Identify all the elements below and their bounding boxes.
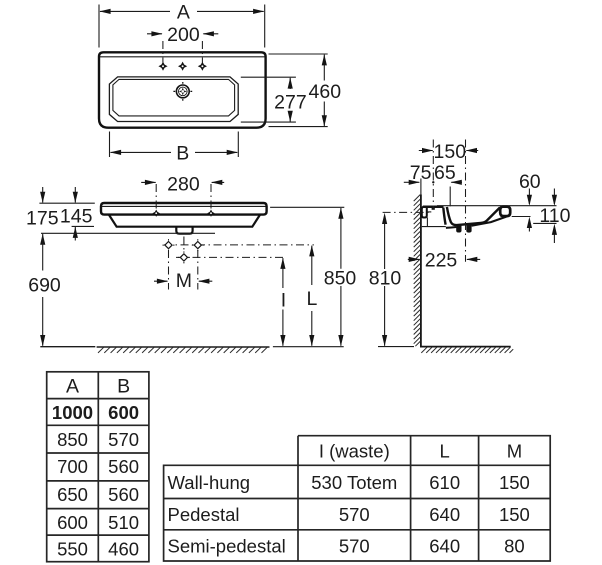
- svg-text:75: 75: [410, 162, 432, 184]
- drain axis line (side): [465, 140, 467, 262]
- svg-text:640: 640: [429, 535, 460, 556]
- side floor extension left: [378, 346, 414, 348]
- table A/B grid: [47, 372, 149, 562]
- dimension 280 arrows: [141, 181, 224, 183]
- dimension 60 arrows: [528, 189, 530, 205]
- table mounting grid: [164, 436, 551, 561]
- dimension 175 arrows: [42, 187, 44, 203]
- fixing hole axis (side): [383, 211, 430, 213]
- basin back edge below tab: [426, 218, 428, 227]
- bowl inner surface (side): [447, 207, 500, 225]
- svg-text:I: I: [281, 290, 286, 312]
- svg-text:650: 650: [57, 484, 88, 505]
- tap hole notch (side): [432, 207, 435, 210]
- front floor line left: [40, 346, 95, 348]
- svg-text:600: 600: [108, 402, 139, 423]
- svg-text:Semi-pedestal: Semi-pedestal: [168, 535, 286, 556]
- waste hole diamond: [178, 251, 190, 263]
- dimension 110 arrows: [553, 189, 555, 205]
- svg-text:60: 60: [519, 171, 541, 193]
- front rim bullnose (side): [500, 207, 510, 217]
- dimension A line: [100, 10, 264, 12]
- svg-text:L: L: [306, 288, 317, 310]
- waste axis line (I): [176, 256, 285, 258]
- svg-text:M: M: [176, 270, 192, 292]
- rim top extension line: [437, 205, 557, 207]
- mounting hole mark right: [207, 210, 214, 217]
- tab hole tick: [428, 211, 432, 213]
- svg-text:600: 600: [57, 512, 88, 533]
- dimension L line: [311, 246, 313, 346]
- slab rim line: [102, 205, 266, 207]
- front floor hatched segment: [97, 346, 270, 348]
- waste pipe right wall: [466, 224, 471, 233]
- svg-text:B: B: [117, 376, 130, 398]
- side floor hatching: [421, 347, 513, 353]
- drain stub (front view): [176, 227, 192, 234]
- svg-text:280: 280: [167, 174, 200, 196]
- svg-text:B: B: [176, 143, 189, 165]
- basin underside back (side): [446, 226, 457, 229]
- stub axis line: [183, 237, 185, 252]
- svg-text:145: 145: [60, 205, 93, 227]
- wall hatching: [414, 195, 421, 347]
- svg-text:I (waste): I (waste): [319, 440, 390, 461]
- side floor line: [420, 346, 511, 348]
- svg-text:460: 460: [309, 81, 342, 103]
- drain symbol: [173, 82, 192, 101]
- wall extension line up: [420, 179, 422, 195]
- svg-text:640: 640: [429, 504, 460, 525]
- dimension 150 arrows: [419, 150, 478, 152]
- bowl profile (front view): [109, 215, 260, 227]
- svg-text:810: 810: [369, 268, 402, 290]
- svg-text:850: 850: [324, 268, 357, 290]
- dimension M arrows: [154, 280, 212, 282]
- basin outline (top view): [99, 52, 266, 127]
- dimension A extension lines: [99, 5, 265, 48]
- dimension 850 extension line: [270, 206, 344, 208]
- svg-text:850: 850: [57, 429, 88, 450]
- wall line: [420, 195, 422, 347]
- dimension 690 line: [42, 234, 44, 346]
- underside front extension line: [533, 222, 556, 224]
- svg-text:150: 150: [499, 472, 530, 493]
- svg-text:110: 110: [539, 205, 570, 227]
- svg-text:A: A: [177, 2, 190, 24]
- tap axis dot: [432, 181, 434, 183]
- dimension 277 line: [289, 78, 291, 122]
- svg-text:690: 690: [28, 274, 61, 296]
- faucet hole 3: [198, 62, 207, 71]
- svg-text:570: 570: [108, 429, 139, 450]
- mounting hole mark left: [153, 210, 160, 217]
- svg-text:M: M: [507, 440, 522, 461]
- dimension 460 extension lines: [269, 54, 328, 127]
- dimension 145 arrows: [74, 187, 76, 203]
- svg-text:277: 277: [274, 91, 307, 113]
- svg-text:560: 560: [108, 456, 139, 477]
- svg-text:570: 570: [339, 504, 370, 525]
- svg-text:Pedestal: Pedestal: [168, 504, 240, 525]
- svg-text:Wall-hung: Wall-hung: [168, 472, 251, 493]
- svg-text:150: 150: [434, 141, 467, 163]
- fixing hole diamond right: [192, 239, 204, 251]
- fixing holes axis line (L): [164, 244, 314, 246]
- dimension 175/145 top extension line: [39, 202, 94, 204]
- 65 extension line: [449, 187, 451, 207]
- dimension M axis lines: [169, 250, 198, 290]
- svg-text:510: 510: [108, 512, 139, 533]
- dimension 460 line: [323, 55, 325, 126]
- basin underside front (side): [472, 217, 507, 226]
- slab outline (front view): [101, 203, 267, 215]
- waste pipe left wall: [456, 225, 461, 233]
- svg-text:530 Totem: 530 Totem: [311, 472, 397, 493]
- dimension 65 arrow: [451, 181, 462, 183]
- basin top surface (side): [423, 206, 444, 209]
- dimension B line: [111, 151, 238, 153]
- bowl outer back wall (side): [443, 208, 445, 225]
- svg-text:570: 570: [339, 535, 370, 556]
- svg-text:80: 80: [504, 535, 525, 556]
- dimension 810 line: [384, 216, 386, 346]
- dimension B extension lines: [110, 132, 239, 158]
- svg-text:700: 700: [57, 456, 88, 477]
- svg-text:560: 560: [108, 484, 139, 505]
- svg-text:200: 200: [167, 24, 200, 46]
- dimension 175 bottom extension: [41, 232, 215, 234]
- svg-text:A: A: [66, 376, 79, 398]
- dimension 225 arrows: [408, 258, 480, 260]
- inner basin outer contour (octagon): [109, 77, 238, 122]
- svg-text:65: 65: [434, 162, 456, 184]
- svg-text:L: L: [440, 440, 450, 461]
- front dimension baseline: [273, 346, 344, 348]
- tap axis line (side): [432, 140, 434, 210]
- svg-text:610: 610: [429, 472, 460, 493]
- dimension I line: [282, 258, 284, 346]
- wall mounting tab: [422, 207, 427, 218]
- under-basin line at wall: [422, 226, 446, 228]
- svg-text:150: 150: [499, 504, 530, 525]
- dimension 75 arrow: [404, 181, 420, 183]
- svg-text:550: 550: [57, 538, 88, 559]
- faucet hole 2: [178, 62, 187, 71]
- svg-text:175: 175: [26, 208, 59, 230]
- inner basin inner contour (octagon): [113, 79, 235, 116]
- dimension 200 axis lines: [163, 41, 203, 63]
- faucet hole 1: [158, 62, 167, 71]
- dimension 200 arrows: [147, 33, 218, 35]
- svg-text:460: 460: [108, 538, 139, 559]
- bullnose bottom extension line: [512, 216, 531, 218]
- svg-text:225: 225: [425, 250, 458, 272]
- svg-text:1000: 1000: [52, 402, 93, 423]
- dimension 280 axis lines: [156, 184, 211, 209]
- dimension 145 bottom extension: [72, 225, 94, 227]
- dimension 277 extension lines: [241, 77, 296, 122]
- dimension 850 line: [340, 208, 342, 346]
- rim inner line (top view): [100, 56, 265, 58]
- fixing hole diamond left: [163, 239, 175, 251]
